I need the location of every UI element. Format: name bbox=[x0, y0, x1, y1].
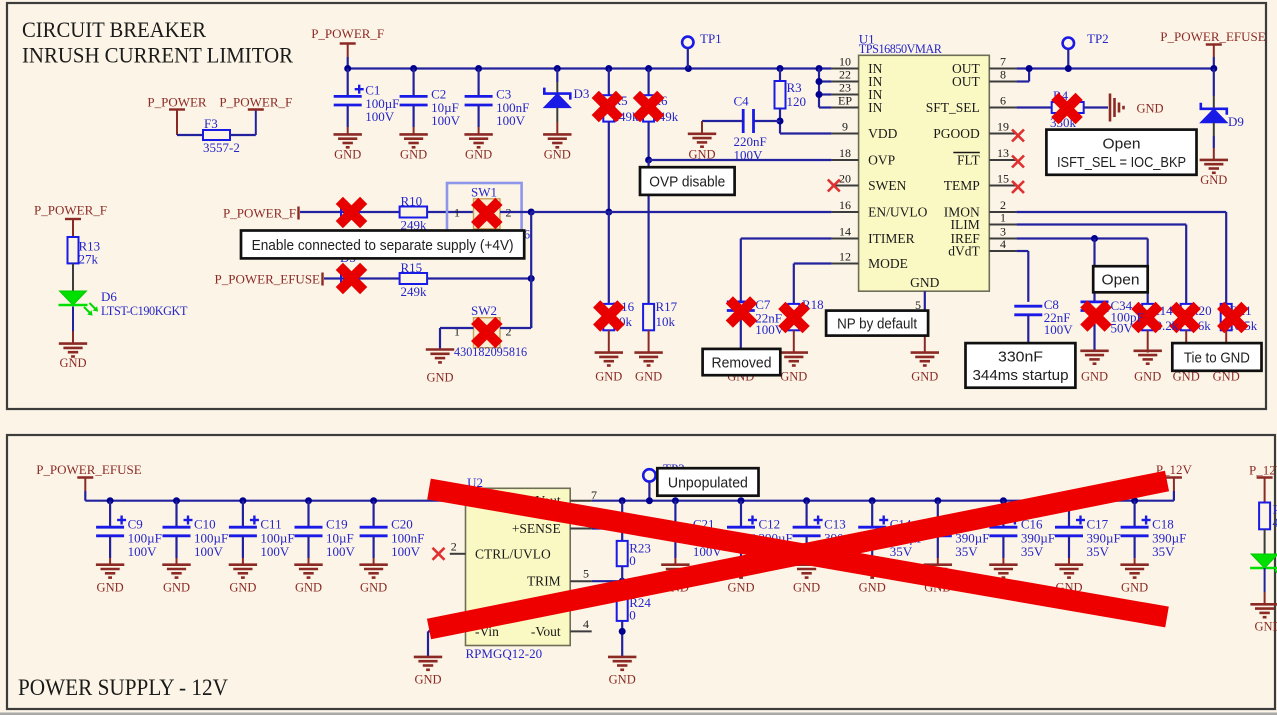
svg-text:Tie to GND: Tie to GND bbox=[1184, 349, 1250, 366]
node rail-C9 bbox=[107, 497, 114, 504]
wire IMON net bbox=[1016, 211, 1226, 213]
capacitor C9 bbox=[109, 501, 111, 528]
red x CTRL open bbox=[433, 548, 445, 560]
svg-text:P_POWER_F: P_POWER_F bbox=[219, 95, 292, 110]
svg-text:R15: R15 bbox=[401, 260, 423, 275]
red X over R5 bbox=[592, 91, 624, 123]
ground bbox=[59, 344, 87, 357]
ground bbox=[294, 565, 322, 578]
resistor R17 bbox=[643, 304, 654, 330]
svg-text:GND: GND bbox=[609, 673, 636, 687]
node rail-C1 bbox=[344, 65, 351, 72]
node IN23 bbox=[816, 91, 823, 98]
U1 pin 5 GND wire bbox=[924, 291, 926, 324]
svg-text:-Vout: -Vout bbox=[531, 624, 561, 639]
svg-text:100V: 100V bbox=[391, 544, 421, 559]
node OUT8 bbox=[1026, 65, 1033, 72]
U2 pin 7 +Vout bbox=[570, 500, 592, 502]
annotation OVP disable bbox=[640, 167, 735, 195]
svg-text:F3: F3 bbox=[204, 116, 218, 131]
node rail-C16 bbox=[1000, 497, 1007, 504]
svg-text:GND: GND bbox=[59, 356, 86, 370]
svg-text:GND: GND bbox=[859, 581, 886, 595]
node IN22 bbox=[816, 78, 823, 85]
svg-text:GND: GND bbox=[1121, 581, 1148, 595]
capacitor C34 (open) bbox=[1081, 302, 1109, 311]
svg-text:35V: 35V bbox=[1021, 544, 1044, 559]
ground bbox=[1200, 160, 1228, 173]
resistor R3 bbox=[779, 69, 781, 82]
U1 pin 13 FLT bbox=[989, 159, 1016, 161]
svg-text:100V: 100V bbox=[194, 544, 224, 559]
svg-text:POWER SUPPLY - 12V: POWER SUPPLY - 12V bbox=[18, 675, 228, 700]
svg-text:CTRL/UVLO: CTRL/UVLO bbox=[475, 546, 551, 561]
wire bbox=[230, 134, 256, 136]
node rail-C2 bbox=[410, 65, 417, 72]
ground bbox=[1120, 565, 1148, 578]
resistor R5 (removed) bbox=[608, 69, 610, 96]
ground sideways bbox=[1110, 94, 1124, 122]
ground bbox=[96, 565, 124, 578]
svg-text:2: 2 bbox=[451, 540, 457, 554]
svg-text:10k: 10k bbox=[656, 314, 676, 329]
svg-text:GND: GND bbox=[163, 581, 190, 595]
svg-text:19: 19 bbox=[997, 120, 1009, 134]
U1 pin 15 TEMP bbox=[989, 185, 1016, 187]
wire bbox=[177, 134, 203, 136]
svg-text:SWEN: SWEN bbox=[868, 178, 906, 193]
ground bbox=[634, 353, 662, 366]
svg-text:18: 18 bbox=[839, 146, 851, 160]
svg-text:1: 1 bbox=[454, 206, 460, 220]
wire bbox=[427, 211, 473, 213]
wire bbox=[1264, 529, 1266, 554]
ground bbox=[727, 565, 755, 578]
svg-text:100V: 100V bbox=[260, 544, 290, 559]
node rail-D3 bbox=[554, 65, 561, 72]
red X over C34 bbox=[1080, 300, 1112, 332]
svg-text:100V: 100V bbox=[365, 109, 395, 124]
capacitor C16 bbox=[1002, 501, 1004, 528]
svg-text:14: 14 bbox=[839, 225, 851, 239]
ground bbox=[334, 134, 362, 147]
svg-text:GND: GND bbox=[426, 371, 453, 385]
wire +SENSE to R23 bbox=[592, 527, 623, 529]
resistor R16 (removed) bbox=[603, 304, 614, 330]
svg-text:GND: GND bbox=[910, 275, 939, 290]
U1 pin 16 EN/UVLO bbox=[832, 211, 859, 213]
node rail-TP3 bbox=[646, 497, 653, 504]
U1 pin 6 SFT_SEL bbox=[989, 107, 1016, 109]
svg-text:TP2: TP2 bbox=[1087, 31, 1109, 46]
node rail-R6 bbox=[645, 65, 652, 72]
red X over D4 bbox=[336, 197, 368, 229]
svg-text:C18: C18 bbox=[1152, 517, 1174, 532]
ground bbox=[1250, 604, 1277, 617]
svg-text:GND: GND bbox=[635, 370, 662, 384]
ground bbox=[229, 565, 257, 578]
svg-text:GND: GND bbox=[295, 581, 322, 595]
U2 pin 3 -Vin bbox=[450, 630, 466, 632]
svg-text:P_POWER_EFUSE: P_POWER_EFUSE bbox=[36, 462, 142, 477]
svg-text:GND: GND bbox=[1137, 102, 1164, 116]
svg-text:ILIM: ILIM bbox=[951, 217, 980, 232]
node rail-C3 bbox=[475, 65, 482, 72]
test point TP3 bbox=[643, 469, 655, 481]
node rail-IN bbox=[816, 65, 823, 72]
node R3-C4 bbox=[777, 118, 784, 125]
wire ILIM net bbox=[1016, 223, 1186, 225]
switch SW1 bbox=[474, 199, 501, 229]
svg-text:1: 1 bbox=[454, 325, 460, 339]
red X over C7 bbox=[726, 296, 758, 328]
svg-text:100V: 100V bbox=[326, 544, 356, 559]
red X over R20 bbox=[1169, 302, 1201, 334]
port P_12V bbox=[1173, 491, 1175, 501]
node rail-R3 bbox=[777, 65, 784, 72]
node rail-C13 bbox=[803, 497, 810, 504]
wire bbox=[427, 277, 531, 279]
ground bbox=[911, 353, 939, 366]
diode D4 (removed) fragment bbox=[341, 204, 360, 220]
svg-text:INRUSH CURRENT LIMITOR: INRUSH CURRENT LIMITOR bbox=[22, 43, 293, 68]
svg-text:PGOOD: PGOOD bbox=[933, 126, 980, 141]
capacitor C13 bbox=[805, 501, 807, 528]
svg-text:C7: C7 bbox=[755, 297, 771, 312]
node -Vout bbox=[619, 628, 626, 635]
wire bbox=[72, 263, 74, 291]
node rail-TP1 bbox=[685, 65, 692, 72]
svg-text:5: 5 bbox=[583, 567, 589, 581]
wire OVP net bbox=[649, 159, 832, 161]
annotation Tie to GND bbox=[1172, 343, 1261, 371]
svg-text:35V: 35V bbox=[955, 544, 978, 559]
node rail-C19 bbox=[305, 497, 312, 504]
svg-text:430182095816: 430182095816 bbox=[454, 345, 527, 359]
LED D10 clipped bbox=[1250, 554, 1277, 568]
wire bbox=[500, 327, 531, 329]
node rail-C18 bbox=[1131, 497, 1138, 504]
svg-text:27k: 27k bbox=[79, 252, 99, 267]
resistor R15 bbox=[400, 273, 428, 284]
node rail-C10 bbox=[173, 497, 180, 504]
wire bbox=[647, 122, 649, 160]
ground bbox=[399, 134, 427, 147]
wire bbox=[647, 160, 649, 304]
svg-text:35V: 35V bbox=[1087, 544, 1110, 559]
test point TP2 bbox=[1063, 38, 1074, 49]
annotation Open bbox=[1093, 266, 1148, 292]
U1 pin 18 OVP bbox=[832, 159, 859, 161]
svg-text:TRIM: TRIM bbox=[527, 574, 561, 589]
U1 pin 1 ILIM bbox=[989, 224, 1016, 226]
node OVP-R6 bbox=[645, 157, 652, 164]
svg-text:16: 16 bbox=[839, 198, 851, 212]
red X over R6 bbox=[633, 91, 665, 123]
LED D6 bbox=[59, 291, 88, 305]
node SW1-EN bbox=[528, 209, 535, 216]
node rail-R23 bbox=[619, 497, 626, 504]
wire IN pins riser bbox=[818, 69, 820, 108]
svg-text:GND: GND bbox=[595, 370, 622, 384]
svg-text:GND: GND bbox=[414, 673, 441, 687]
wire bbox=[428, 630, 450, 632]
svg-text:EP: EP bbox=[838, 94, 852, 108]
svg-text:23: 23 bbox=[839, 81, 851, 95]
svg-text:GND: GND bbox=[911, 370, 938, 384]
capacitor C20 bbox=[373, 501, 375, 528]
red x TEMP pin open bbox=[1012, 181, 1024, 193]
capacitor C17 bbox=[1068, 501, 1070, 528]
U1 pin 7 OUT bbox=[989, 68, 1016, 70]
node rail-C21 bbox=[672, 497, 679, 504]
svg-text:P_POWER: P_POWER bbox=[147, 95, 207, 110]
node IREF-C34 bbox=[1091, 235, 1098, 242]
U1 pin 20 SWEN bbox=[832, 185, 859, 187]
wire bbox=[779, 109, 781, 134]
red X over R16 bbox=[593, 300, 625, 332]
svg-text:GND: GND bbox=[1081, 370, 1108, 384]
ground bbox=[780, 353, 808, 366]
svg-text:GND: GND bbox=[727, 581, 754, 595]
svg-text:LTST-C190KGKT: LTST-C190KGKT bbox=[101, 304, 188, 318]
wire bbox=[72, 307, 74, 332]
wire bbox=[608, 212, 610, 304]
red X over R18 bbox=[778, 302, 810, 334]
diode D3 bbox=[556, 69, 558, 83]
frame: circuit breaker sheet border bbox=[7, 3, 1266, 409]
op-amp U1 TPS16850VMAR body bbox=[859, 55, 990, 291]
ground bbox=[924, 565, 952, 578]
svg-text:OUT: OUT bbox=[952, 74, 980, 89]
svg-text:100V: 100V bbox=[431, 113, 461, 128]
svg-text:GND: GND bbox=[1200, 173, 1227, 187]
U1 pin 12 MODE bbox=[832, 263, 859, 265]
ground bbox=[1055, 565, 1083, 578]
test point TP1 bbox=[682, 37, 693, 48]
svg-text:Open: Open bbox=[1102, 272, 1140, 289]
resistor R26 clipped bbox=[1259, 503, 1270, 530]
resistor R20 (tie to gnd) bbox=[1181, 304, 1192, 330]
svg-text:330nF: 330nF bbox=[998, 349, 1043, 366]
svg-text:MODE: MODE bbox=[868, 256, 908, 271]
svg-text:P_POWER_F: P_POWER_F bbox=[311, 26, 384, 41]
annotation Open ISFT_SEL bbox=[1046, 130, 1196, 175]
wire MODE net bbox=[794, 262, 832, 264]
svg-text:D3: D3 bbox=[574, 86, 590, 101]
U2 pin 6 +SENSE bbox=[570, 528, 592, 530]
resistor R23 bbox=[617, 541, 628, 566]
svg-text:P_POWER_EFUSE: P_POWER_EFUSE bbox=[1160, 29, 1266, 44]
svg-text:SFT_SEL: SFT_SEL bbox=[926, 100, 980, 115]
annotation Removed bbox=[703, 349, 781, 375]
ground bbox=[858, 565, 886, 578]
U1 pin 9 VDD bbox=[832, 133, 859, 135]
svg-text:P_POWER_F: P_POWER_F bbox=[34, 203, 107, 218]
svg-text:7: 7 bbox=[1000, 55, 1006, 69]
svg-text:15: 15 bbox=[997, 172, 1009, 186]
svg-text:OVP disable: OVP disable bbox=[649, 174, 725, 191]
ground bbox=[1172, 353, 1200, 366]
ground bbox=[661, 565, 689, 578]
U2 pin 2 CTRL/UVLO bbox=[450, 553, 466, 555]
resistor R21 (tie to gnd) bbox=[1221, 304, 1232, 330]
node EN-R5 bbox=[605, 209, 612, 216]
ground bbox=[989, 565, 1017, 578]
wire pin8 riser bbox=[1016, 80, 1029, 82]
red X over SW1 bbox=[471, 198, 503, 230]
node OUT-TP2 bbox=[1065, 65, 1072, 72]
wire input rail bbox=[85, 500, 450, 502]
svg-text:R17: R17 bbox=[656, 299, 678, 314]
capacitor C12 bbox=[740, 501, 742, 528]
node rail-C12 bbox=[738, 497, 745, 504]
U1 pin 22 IN bbox=[832, 81, 859, 83]
capacitor C1 bbox=[347, 69, 349, 97]
wire dVdT net bbox=[1016, 250, 1028, 252]
svg-text:GND: GND bbox=[1134, 370, 1161, 384]
U2 +Vin stub bbox=[450, 500, 466, 502]
svg-text:Enable connected to separate s: Enable connected to separate supply (+4V… bbox=[252, 237, 514, 254]
capacitor C21 bbox=[674, 501, 676, 528]
U2 pin 5 TRIM bbox=[570, 580, 592, 582]
svg-text:8: 8 bbox=[1000, 68, 1006, 82]
big red X stroke 2 bbox=[429, 481, 1167, 629]
svg-text:C13: C13 bbox=[824, 517, 846, 532]
ground bbox=[414, 657, 442, 670]
U1 pin 4 dVdT bbox=[989, 250, 1016, 252]
svg-text:4: 4 bbox=[1000, 237, 1006, 251]
svg-text:C10: C10 bbox=[194, 517, 216, 532]
svg-text:GND: GND bbox=[360, 581, 387, 595]
node R15-SW2 bbox=[528, 275, 535, 282]
svg-text:C17: C17 bbox=[1087, 517, 1109, 532]
svg-text:D6: D6 bbox=[101, 289, 117, 304]
diode D9 bbox=[1213, 69, 1215, 97]
wire bbox=[621, 621, 623, 657]
svg-text:12: 12 bbox=[839, 250, 851, 264]
wire main input rail bbox=[348, 67, 832, 69]
svg-text:GND: GND bbox=[465, 147, 492, 161]
svg-text:VDD: VDD bbox=[868, 126, 897, 141]
node rail-C17 bbox=[1066, 497, 1073, 504]
svg-text:GND: GND bbox=[229, 581, 256, 595]
frame: power supply sheet border bbox=[7, 435, 1275, 709]
svg-text:TPS16850VMAR: TPS16850VMAR bbox=[859, 42, 943, 56]
svg-text:SW2: SW2 bbox=[471, 303, 497, 318]
regulator U2 RPMGQ12-20 body bbox=[466, 488, 571, 645]
big red X stroke 1 bbox=[429, 489, 1167, 617]
svg-text:13: 13 bbox=[997, 146, 1009, 160]
node OUT-D9 bbox=[1210, 65, 1217, 72]
svg-text:P_12V: P_12V bbox=[1249, 463, 1277, 478]
ground bbox=[543, 134, 571, 147]
U1 pin 2 IMON bbox=[989, 211, 1016, 213]
svg-text:249k: 249k bbox=[401, 284, 428, 299]
svg-text:GND: GND bbox=[400, 147, 427, 161]
resistor R14 (tie to gnd) bbox=[1142, 304, 1153, 330]
svg-text:C9: C9 bbox=[128, 517, 143, 532]
ground bbox=[464, 134, 492, 147]
svg-text:0: 0 bbox=[629, 553, 636, 568]
resistor R24 bbox=[617, 595, 628, 621]
node TRIM-R23-R24 bbox=[619, 578, 626, 585]
capacitor C11 bbox=[242, 501, 244, 528]
wire ITIMER net bbox=[741, 237, 832, 239]
svg-text:4k7: 4k7 bbox=[1273, 515, 1277, 530]
node rail-C14 bbox=[869, 497, 876, 504]
switch SW1 highlight box bbox=[447, 183, 522, 244]
ground bbox=[792, 565, 820, 578]
wire bbox=[608, 122, 610, 212]
U1 pin 3 IREF bbox=[989, 238, 1016, 240]
svg-text:GND: GND bbox=[780, 370, 807, 384]
svg-text:RPMGQ12-20: RPMGQ12-20 bbox=[466, 646, 543, 661]
svg-text:Unpopulated: Unpopulated bbox=[668, 474, 748, 491]
wire bbox=[347, 57, 349, 69]
wire VDD bbox=[780, 132, 832, 134]
svg-text:IN: IN bbox=[868, 100, 882, 115]
svg-text:C20: C20 bbox=[391, 517, 413, 532]
U1 pin EP IN bbox=[832, 107, 859, 109]
svg-text:3557-2: 3557-2 bbox=[203, 140, 240, 155]
wire +Vout rail bbox=[592, 500, 1174, 502]
svg-text:100V: 100V bbox=[496, 113, 525, 128]
wire bbox=[530, 212, 532, 328]
svg-text:GND: GND bbox=[334, 147, 361, 161]
node rail-C11 bbox=[239, 497, 246, 504]
svg-text:C12: C12 bbox=[759, 517, 781, 532]
svg-text:GND: GND bbox=[793, 581, 820, 595]
resistor R4 (removed) bbox=[1052, 102, 1084, 113]
ground bbox=[1212, 353, 1240, 366]
capacitor C2 bbox=[413, 69, 415, 97]
svg-text:10: 10 bbox=[839, 55, 851, 69]
resistor R6 (removed) bbox=[647, 69, 649, 96]
svg-text:ITIMER: ITIMER bbox=[868, 231, 915, 246]
svg-text:TP1: TP1 bbox=[700, 31, 722, 46]
capacitor C8 bbox=[1014, 306, 1042, 315]
resistor R18 (removed) bbox=[788, 304, 799, 330]
svg-text:D9: D9 bbox=[1228, 114, 1244, 129]
svg-text:50V: 50V bbox=[1111, 321, 1134, 336]
bottom window edge bbox=[0, 713, 1277, 715]
node rail-C20 bbox=[370, 497, 377, 504]
capacitor C10 bbox=[175, 501, 177, 528]
svg-text:GND: GND bbox=[1254, 620, 1277, 634]
U1 pin 10 IN bbox=[832, 68, 859, 70]
svg-text:C4: C4 bbox=[734, 94, 750, 109]
svg-text:P_POWER_F: P_POWER_F bbox=[223, 205, 296, 220]
ground bbox=[359, 565, 387, 578]
annotation Unpopulated bbox=[657, 468, 758, 496]
annotation Enable connected to separate supply bbox=[241, 231, 524, 259]
ground bbox=[1134, 351, 1162, 364]
wire bbox=[324, 277, 400, 279]
svg-text:100V: 100V bbox=[128, 544, 158, 559]
svg-text:GND: GND bbox=[544, 147, 571, 161]
wire bbox=[440, 327, 474, 329]
U1 pin 23 IN bbox=[832, 94, 859, 96]
annotation 330nF 344ms startup bbox=[966, 343, 1076, 388]
svg-text:Removed: Removed bbox=[712, 354, 772, 371]
wire bbox=[500, 211, 531, 213]
svg-text:+SENSE: +SENSE bbox=[512, 521, 561, 536]
svg-text:Open: Open bbox=[1103, 135, 1141, 152]
capacitor C3 bbox=[478, 69, 480, 97]
ground bbox=[688, 134, 716, 147]
wire OUT rail bbox=[1016, 67, 1213, 69]
